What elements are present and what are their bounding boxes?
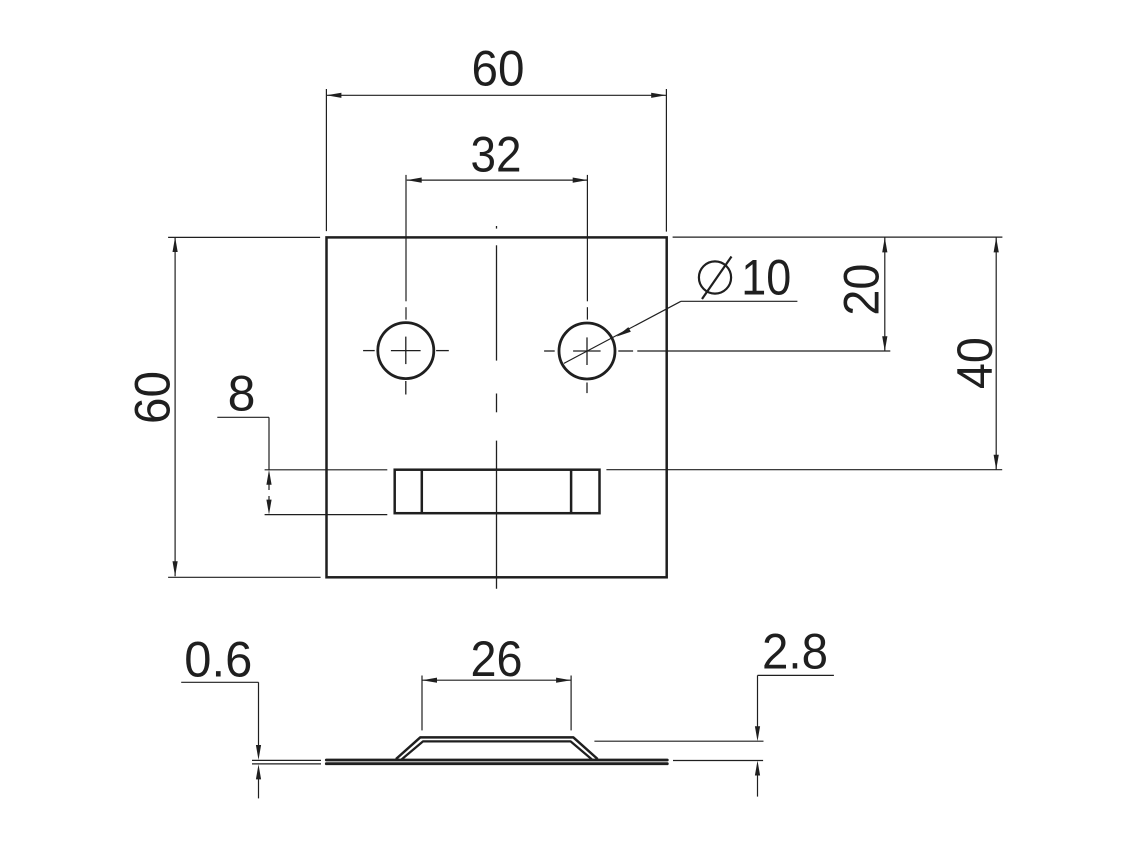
8 arrows [266,470,271,485]
svg-text:40: 40 [947,337,1003,389]
hole right [559,323,615,379]
32 arrows [407,178,422,183]
60 left arrows [173,237,178,252]
dimension 2.8: leader and lines [594,675,834,796]
svg-text:60: 60 [472,41,525,97]
arrowheads [173,93,999,780]
side view: sheet bottom surface [326,762,667,765]
svg-text:2.8: 2.8 [762,624,828,680]
hole left [378,323,434,379]
vertical centerline of plate [496,226,498,589]
side view: sheet top surface [326,759,667,762]
side view: bump inner profile [402,741,593,759]
dimension 60 left: extension lines [168,237,321,577]
svg-text:10: 10 [741,249,791,305]
hole right centermark cross [573,337,601,365]
hole right centerline segments [544,351,890,393]
slot (stamped recess, front view) [395,470,600,514]
20 arrows [882,237,887,252]
slot top extension line to 40 dim [606,469,1002,471]
dimension texts [124,41,1003,688]
dimension 26: line and extension lines [422,676,571,731]
dimension 40 line [995,237,997,469]
svg-text:60: 60 [124,371,180,424]
plate outline (front view 60x60) [327,237,667,577]
diameter symbol [699,261,731,293]
dimension 60 top: extension lines [326,89,666,232]
hole left centermark cross [391,337,421,365]
dimension 32: extension lines down to holes [406,175,588,320]
0.6 arrows [256,745,261,760]
dimension 20 line [884,237,886,351]
svg-text:0.6: 0.6 [184,632,252,688]
svg-text:20: 20 [834,264,890,316]
dimension 0.6: leader and lines [181,682,321,798]
26 arrows [422,678,437,683]
hole left centerline segments [363,351,449,395]
top right extension line [673,236,1003,238]
2.8 arrows [755,726,760,741]
40 arrows [994,237,999,252]
slot inner edge right [570,470,573,514]
svg-text:32: 32 [471,126,522,182]
svg-text:26: 26 [471,631,523,687]
side view: bump outer profile [396,737,598,759]
dimension 8: leader and extension lines [217,417,387,514]
diameter leader to right hole [564,301,798,363]
slot inner edge left [421,470,424,514]
leader arrow at right hole [616,327,630,337]
60 top arrows [326,93,341,98]
svg-text:8: 8 [228,366,256,422]
